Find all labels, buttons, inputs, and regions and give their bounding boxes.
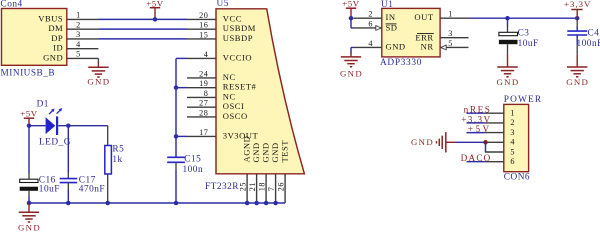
svg-text:10uF: 10uF [39,185,60,195]
svg-text:2: 2 [510,118,515,127]
svg-text:RESET#: RESET# [223,82,257,92]
svg-text:GND: GND [260,142,270,162]
svg-text:6: 6 [368,19,373,28]
svg-text:5: 5 [76,50,81,59]
svg-text:C15: C15 [184,154,201,164]
svg-text:8: 8 [204,89,209,98]
svg-text:U1: U1 [381,0,393,10]
svg-text:GND: GND [566,77,589,87]
svg-text:ADP3330: ADP3330 [380,58,422,68]
svg-text:OSCO: OSCO [223,111,248,121]
svg-text:VCC: VCC [223,13,242,23]
svg-text:GND: GND [497,77,520,87]
svg-text:25: 25 [239,182,248,191]
svg-text:470nF: 470nF [79,185,105,195]
svg-text:C3: C3 [518,29,530,39]
svg-text:TEST: TEST [279,140,289,163]
svg-text:17: 17 [199,128,208,137]
svg-text:ID: ID [53,43,63,53]
svg-text:2: 2 [76,20,81,29]
svg-text:DM: DM [48,23,63,33]
svg-text:19: 19 [199,79,208,88]
svg-text:3: 3 [510,128,515,137]
svg-text:VBUS: VBUS [38,13,63,23]
svg-text:+5V: +5V [20,109,38,119]
svg-text:AGND: AGND [241,136,251,163]
svg-text:+3,3V: +3,3V [564,0,591,9]
svg-text:C4: C4 [588,29,600,39]
svg-text:GND: GND [251,142,261,162]
svg-text:10uF: 10uF [518,39,539,49]
svg-text:USBDP: USBDP [223,33,253,43]
svg-text:VCCIO: VCCIO [223,52,252,62]
svg-text:GND: GND [18,222,41,232]
svg-text:DACO: DACO [461,153,492,163]
svg-text:100nF: 100nF [577,39,600,49]
svg-text:5: 5 [510,147,515,156]
svg-text:MINIUSB_B: MINIUSB_B [1,69,56,79]
svg-text:LED_G: LED_G [39,137,71,147]
svg-text:NR: NR [421,41,434,51]
svg-text:FT232R: FT232R [205,182,239,192]
svg-text:27: 27 [199,99,208,108]
svg-text:3: 3 [448,29,453,38]
svg-text:28: 28 [199,108,208,117]
svg-text:GND: GND [87,76,110,86]
svg-text:15: 15 [199,30,208,39]
svg-text:U5: U5 [217,0,229,9]
svg-text:1: 1 [448,10,453,19]
svg-text:16: 16 [199,21,208,30]
svg-text:5: 5 [448,39,453,48]
svg-text:NC: NC [223,91,236,101]
svg-text:21: 21 [248,182,257,191]
svg-text:NC: NC [223,72,236,82]
svg-text:GND: GND [43,52,63,62]
svg-text:OSCI: OSCI [223,101,245,111]
svg-text:26: 26 [277,182,286,191]
svg-text:24: 24 [199,69,208,78]
svg-text:GND: GND [411,137,434,147]
svg-text:2: 2 [368,10,373,19]
svg-text:nRES: nRES [464,105,492,115]
svg-text:GND: GND [270,142,280,162]
svg-text:1: 1 [76,11,81,20]
svg-text:7: 7 [267,187,276,192]
svg-text:3: 3 [76,30,81,39]
svg-text:+5V: +5V [342,0,360,9]
svg-text:4: 4 [204,50,209,59]
svg-text:OUT: OUT [414,12,433,22]
svg-text:4: 4 [76,40,81,49]
svg-text:D1: D1 [37,99,49,109]
svg-text:1: 1 [510,109,515,118]
svg-text:USBDM: USBDM [223,23,256,33]
svg-text:+5V: +5V [468,124,492,134]
svg-text:R5: R5 [112,145,124,155]
svg-text:100n: 100n [183,165,204,175]
svg-text:20: 20 [199,11,208,20]
svg-text:4: 4 [368,39,373,48]
svg-text:IN: IN [386,12,396,22]
svg-text:+3,3V: +3,3V [461,114,491,124]
svg-text:4: 4 [510,138,515,147]
svg-text:18: 18 [258,182,267,191]
svg-text:GND: GND [340,68,363,78]
svg-text:6: 6 [510,157,515,166]
svg-text:POWER: POWER [504,95,543,105]
svg-text:CON6: CON6 [504,173,530,183]
svg-text:1k: 1k [112,155,122,165]
svg-text:DP: DP [51,33,63,43]
svg-text:Con4: Con4 [1,0,23,10]
svg-text:GND: GND [386,41,406,51]
